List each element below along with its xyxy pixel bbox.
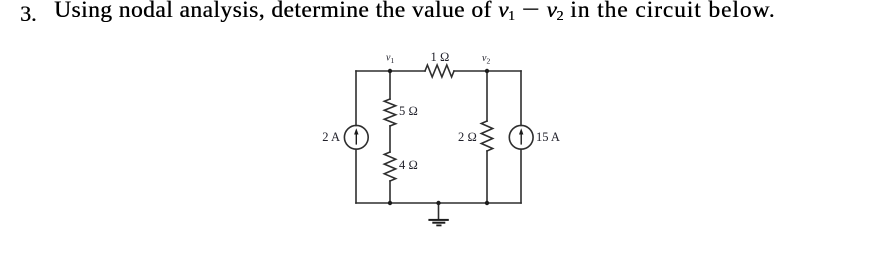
bottom junction dot (4ohm branch) [388,201,392,205]
ground bar 1 [428,219,448,221]
svg-text:2 A: 2 A [322,130,340,144]
svg-text:5 Ω: 5 Ω [399,104,418,118]
arrow of 15A source [521,134,522,144]
svg-text:15 A: 15 A [536,130,560,144]
svg-text:v2: v2 [482,53,490,66]
current source I2 15A circle [509,125,533,149]
wire bottom rail [356,202,521,204]
problem statement number [20,1,37,27]
wire right branch lower [520,149,522,203]
node v2 junction dot [485,69,489,73]
wire right branch upper [520,71,522,125]
wire top rail right: 1-ohm to right corner [454,70,521,72]
wire left branch upper [355,71,357,126]
ground bar 3 [436,225,441,227]
svg-text:4 Ω: 4 Ω [399,158,418,172]
problem statement text [54,0,775,25]
resistor R 1ohm (horizontal, top rail) [425,65,454,77]
ground stem [438,203,440,219]
wire middle branch between 5ohm and 4ohm [389,126,391,152]
wire 2ohm branch bottom [486,151,488,203]
svg-text:1 Ω: 1 Ω [431,50,450,64]
bottom junction dot (2ohm branch) [485,201,489,205]
resistor R 2ohm (vertical) [481,121,492,151]
wire 2ohm branch top: v2 to 2-ohm [486,71,488,121]
bottom junction dot (ground) [436,201,440,205]
svg-text:v1: v1 [386,53,394,66]
arrow of 2A source [356,134,357,144]
wire left branch lower [355,149,357,203]
ground bar 2 [432,222,445,224]
node v1 junction dot [388,69,392,73]
wire middle branch top: v1 to 5-ohm [389,71,391,99]
wire top rail left: corner to 1-ohm [356,70,425,72]
current source I1 2A circle [344,125,368,149]
resistor R 5ohm (vertical) [384,99,395,126]
resistor R 4ohm (vertical) [384,152,395,181]
wire middle branch bottom [389,181,391,203]
svg-text:2 Ω: 2 Ω [458,130,477,144]
